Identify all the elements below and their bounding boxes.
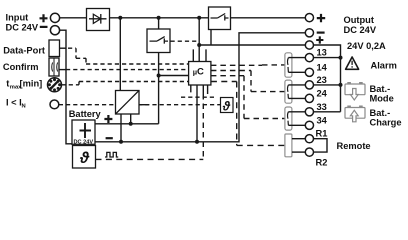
wire terminal 33 (288, 111, 305, 113)
terminal input - (50, 26, 59, 35)
switch S1 symbol (150, 37, 169, 44)
terminal 13 (305, 54, 313, 62)
rotary selector tmax dial (48, 78, 62, 92)
wire DC/DC minus pin down (120, 114, 122, 142)
wire 13 to bus (314, 57, 341, 59)
wire tmax dashed with step (62, 82, 189, 85)
wire uC bottom pin to minus rail (196, 85, 198, 142)
svg-text:Input: Input (6, 13, 29, 23)
wire +bus right (314, 45, 341, 112)
LED I<IN (50, 100, 59, 109)
svg-text:Alarm: Alarm (371, 61, 397, 71)
wire I<IN to theta2 dashed (59, 104, 221, 106)
node 13 bus (339, 56, 343, 60)
wire confirm stub (59, 69, 66, 71)
microcontroller U1 box (189, 62, 211, 86)
battery cell symbol (80, 123, 92, 138)
svg-text:R1: R1 (316, 129, 328, 139)
wire S2 bottom to 24V 0,2A line (210, 30, 212, 46)
node DC/DC minus rail (119, 140, 123, 144)
wire top bus (110, 17, 209, 19)
terminal 14 (305, 68, 313, 76)
temperature sensor theta2 box (221, 98, 234, 113)
svg-text:Confirm: Confirm (3, 62, 39, 72)
node bus dcdc (118, 16, 122, 20)
terminal 24V 0,2A + (305, 41, 313, 49)
relay contact K3 box (285, 107, 292, 130)
node S1 tmax junction (157, 74, 161, 78)
wire uC bottom pin dashed down (202, 85, 204, 94)
terminal 34 (305, 121, 313, 129)
wire terminal R1 (292, 138, 305, 140)
svg-text:DC 24V: DC 24V (6, 22, 39, 32)
terminal output - (305, 29, 313, 37)
svg-text:R2: R2 (316, 158, 328, 168)
wire S1 bottom to battery plus (158, 53, 160, 124)
svg-text:[min]: [min] (20, 79, 43, 89)
svg-text:ϑ: ϑ (222, 100, 231, 114)
battery mode icon (345, 82, 365, 100)
battery charge icon (345, 106, 365, 122)
terminal 23 (305, 81, 313, 89)
battery + sign (104, 115, 112, 123)
output + sign (317, 14, 325, 22)
svg-text:N: N (22, 103, 26, 109)
wire relay2 control dashed (211, 71, 285, 92)
switch S1 box (147, 29, 170, 53)
wire terminal 13 (288, 57, 305, 59)
24V 0,2A + sign (316, 36, 323, 43)
wire relay1 control dashed (211, 64, 285, 66)
wire bus to DC/DC top (119, 18, 121, 91)
node uC minus rail (195, 140, 199, 144)
wire battery minus rail (95, 33, 305, 142)
wire DC/DC plus pin down (130, 114, 132, 124)
diode D1 box (87, 9, 110, 31)
battery B1 box (72, 120, 95, 144)
wire input+ to diode (59, 17, 86, 19)
svg-text:23: 23 (317, 75, 327, 85)
wire terminal 14 (288, 71, 305, 73)
label Bat.-Charge (370, 108, 402, 127)
terminal R2 (305, 148, 313, 156)
terminal 24 (305, 94, 313, 102)
node 24V02A tap (197, 43, 201, 47)
uC bottom stub pins (191, 85, 208, 94)
battery - sign (106, 137, 113, 139)
relay contact K1 box (285, 53, 292, 77)
wire input- down left rail (59, 30, 72, 144)
svg-text:DC 24V: DC 24V (74, 139, 94, 145)
svg-text:24V 0,2A: 24V 0,2A (347, 41, 386, 51)
node 23 bus (339, 83, 343, 87)
wire battery plus line (95, 123, 159, 125)
wire S1 control dashed (171, 40, 198, 42)
label Input DC 24V (6, 13, 39, 33)
svg-text:DC 24V: DC 24V (344, 25, 377, 35)
svg-text:33: 33 (317, 102, 327, 112)
wire 23 to bus (314, 84, 341, 86)
switch S2 box (209, 7, 231, 30)
label Output DC 24V (344, 15, 377, 35)
wire bottom dashed rail (96, 158, 204, 160)
wire data-port dashed jog (68, 48, 189, 64)
output - sign (317, 31, 325, 33)
svg-text:I < I: I < I (6, 97, 22, 107)
wire box1-junction to uC solid (159, 75, 189, 77)
switch S2 symbol (211, 14, 229, 21)
svg-text:34: 34 (317, 115, 328, 125)
wire terminal 24 (288, 97, 305, 99)
alarm warning triangle (346, 57, 359, 69)
wire DC/DC right stub (139, 104, 149, 106)
wire remote dashed branch (211, 82, 285, 146)
input + polarity sign (40, 14, 48, 22)
DC/DC converter box (116, 91, 140, 115)
wire S2 to output + (231, 17, 306, 19)
svg-text:Data-Port: Data-Port (3, 45, 45, 55)
relay contact K2 box (285, 80, 292, 103)
svg-text:14: 14 (317, 62, 328, 72)
wire small dashed row below uC (181, 96, 215, 98)
data-port connector box (49, 40, 60, 57)
wire uC top centre pin to bus (198, 18, 200, 62)
relay K3 blade (286, 112, 289, 126)
input - polarity sign (40, 26, 48, 28)
svg-text:C: C (197, 66, 204, 77)
wire confirm to uC dashed (66, 69, 189, 71)
svg-text:13: 13 (317, 48, 327, 58)
svg-text:Battery: Battery (69, 109, 102, 119)
confirm button box (49, 58, 59, 76)
wire bus to switch S1 (158, 18, 160, 29)
terminal output + (305, 14, 313, 22)
uC top pins (193, 49, 206, 61)
node bus uC (197, 16, 201, 20)
terminal input + (50, 13, 59, 22)
svg-text:Mode: Mode (370, 93, 394, 103)
wire relay3 control dashed (211, 76, 285, 119)
wire terminal R2 (292, 151, 305, 153)
wire R1-R2 jumper (314, 139, 328, 152)
charge pulse symbol (105, 152, 118, 157)
relay K2 blade (286, 85, 289, 99)
label tmax[min] (6, 79, 42, 91)
node bus S1 (157, 16, 161, 20)
terminal R1 (305, 135, 313, 143)
terminal 33 (305, 108, 313, 116)
label I < IN (6, 97, 26, 109)
relay K1 blade (286, 58, 289, 73)
wire terminal 34 (288, 124, 305, 126)
svg-text:Charge: Charge (370, 117, 402, 127)
remote input box (285, 134, 292, 157)
node DC/DC plus (129, 122, 133, 126)
svg-text:Remote: Remote (337, 141, 371, 151)
diode D1 symbol (89, 14, 107, 24)
svg-text:Output: Output (344, 15, 374, 25)
label Bat.-Mode (370, 84, 394, 103)
wire data-port stub (60, 47, 67, 49)
svg-text:24: 24 (317, 88, 328, 98)
wire 24V 0,2A line (199, 44, 305, 46)
wire 33 to bus (314, 111, 341, 113)
wire terminal 23 (288, 84, 305, 86)
temperature sensor theta1 box (73, 146, 96, 169)
svg-text:ϑ: ϑ (79, 150, 90, 167)
label uC (193, 66, 204, 77)
